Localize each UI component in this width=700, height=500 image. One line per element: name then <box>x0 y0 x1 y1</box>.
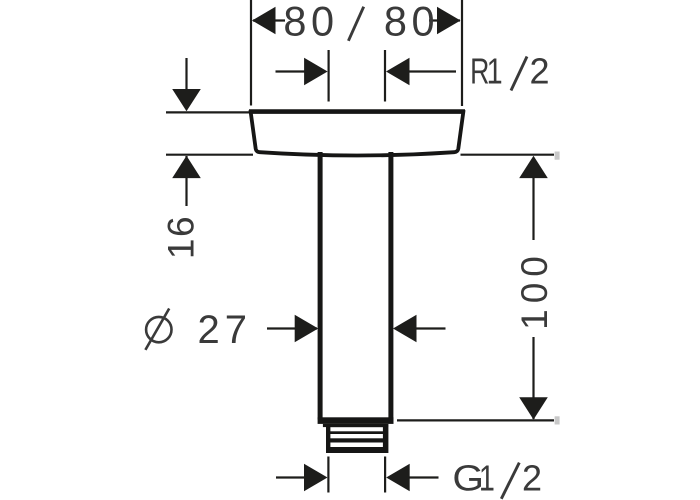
gray end cap top <box>555 152 560 160</box>
label G1/2 slash <box>501 463 519 499</box>
pipe bottom bar <box>318 417 394 424</box>
arrow 80/80 left <box>252 7 276 35</box>
svg-text:27: 27 <box>198 308 253 352</box>
diameter 27 dim line left <box>267 327 317 329</box>
G1/2 dim line left <box>276 476 305 478</box>
16 dim line lower <box>185 156 187 206</box>
svg-text:2: 2 <box>522 458 542 499</box>
G1/2 tick left <box>327 457 329 493</box>
dim line 80/80 left segment <box>253 19 285 21</box>
arrow G1/2 right <box>386 464 410 492</box>
diameter symbol circle <box>146 317 171 342</box>
label R1/2 slash <box>511 57 527 91</box>
svg-text:100: 100 <box>514 250 555 330</box>
arrow diameter27 right <box>393 315 417 343</box>
R1/2 tick right <box>384 50 386 102</box>
pipe left wall <box>318 152 323 420</box>
svg-text:1: 1 <box>479 457 495 498</box>
100 dim line upper <box>532 178 534 240</box>
thread stripe 3 <box>330 443 383 448</box>
arrow G1/2 left <box>304 464 328 492</box>
R1/2 tick left <box>328 50 330 102</box>
gray end cap bottom <box>555 416 560 424</box>
svg-text:2: 2 <box>530 51 550 92</box>
diameter symbol slash <box>145 309 169 350</box>
extension line flange bottom right <box>461 154 555 156</box>
arrow diameter27 left <box>295 315 319 343</box>
flange body outline <box>250 110 463 156</box>
100 dim line lower <box>532 337 534 419</box>
R1/2 dim line right <box>409 70 456 72</box>
svg-text:80: 80 <box>283 0 338 44</box>
svg-text:1: 1 <box>487 50 503 91</box>
thread stripe 2 <box>330 434 383 438</box>
dim line 80/80 right segment <box>429 19 460 21</box>
G1/2 tick right <box>384 457 386 493</box>
R1/2 dim line left <box>276 70 310 72</box>
arrow R1/2 left <box>304 58 328 86</box>
svg-text:80: 80 <box>384 0 439 44</box>
arrow 16 top <box>172 89 201 111</box>
extension line pipe bottom right <box>397 419 554 421</box>
pipe right wall <box>388 152 393 420</box>
svg-text:16: 16 <box>161 215 202 259</box>
extension line right (80/80) <box>461 0 463 106</box>
flange top edge <box>249 109 465 114</box>
label 80/80 slash <box>348 7 363 41</box>
arrow 80/80 right <box>437 7 461 35</box>
extension line left (80/80) <box>250 0 252 106</box>
arrow 100 top <box>519 156 548 178</box>
arrow 16 bottom <box>172 156 201 178</box>
extension line flange bottom left <box>166 154 253 156</box>
thread stripe 1 <box>330 427 383 431</box>
arrow R1/2 right <box>386 58 410 86</box>
diameter 27 dim line right <box>415 327 446 329</box>
arrow 100 bottom <box>519 397 548 419</box>
thread block <box>326 424 388 453</box>
16 dim line upper <box>185 58 187 90</box>
extension line flange top left <box>166 111 250 113</box>
thread step collar <box>323 424 388 427</box>
G1/2 dim line right <box>409 476 439 478</box>
